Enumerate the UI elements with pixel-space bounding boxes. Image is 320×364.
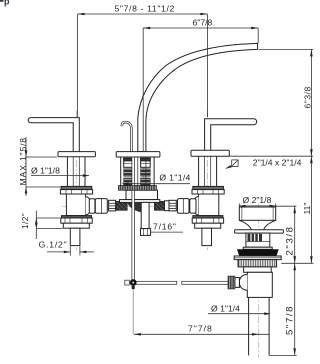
- deck line right: [230, 155, 314, 157]
- 1/2 dim left: [35, 211, 37, 240]
- square symbol leader: [232, 160, 238, 167]
- MAX 1"5/8 dim: [25, 137, 27, 196]
- centerline left valve: [75, 110, 77, 250]
- left valve lower ring 1: [62, 216, 92, 218]
- dia 1"1/4 bottom arrow: [264, 312, 271, 315]
- tee body: [126, 190, 158, 199]
- right valve flange: [191, 150, 229, 156]
- G1/2 arrows: [64, 251, 71, 254]
- right valve lower ring 2: [192, 218, 223, 223]
- svg-text:2"1/4 x 2"1/4: 2"1/4 x 2"1/4: [253, 158, 302, 168]
- right outlet collar: [190, 199, 196, 213]
- right hose big nut: [178, 199, 190, 214]
- 5"7/8 arrows: [293, 263, 296, 270]
- left hose big nut: [95, 199, 107, 214]
- svg-text:1/2": 1/2": [21, 213, 30, 229]
- 7"7/8 arrows: [134, 333, 141, 336]
- left valve body: [66, 194, 85, 216]
- right valve outlet boss: [193, 197, 198, 216]
- tee down pipe: [141, 202, 149, 228]
- svg-text:5"7/8: 5"7/8: [284, 305, 295, 335]
- left valve outlet boss: [86, 197, 91, 216]
- left braided hose: [116, 201, 127, 210]
- dim 5"7/8 vertical: [294, 263, 296, 355]
- dim 11" vertical: [310, 156, 312, 263]
- svg-text:MAX.1"5/8: MAX.1"5/8: [18, 137, 28, 185]
- drain upper body: [246, 233, 270, 247]
- spout water tube lines: [137, 157, 139, 186]
- pivot boss: [239, 274, 247, 290]
- tee fillet: [127, 202, 141, 212]
- left hose striped connector: [109, 200, 116, 211]
- svg-text:Ø 1"1/4: Ø 1"1/4: [159, 172, 190, 182]
- 1/2 arrows: [35, 218, 37, 224]
- ball joint: [130, 280, 136, 286]
- svg-text:7"7/8: 7"7/8: [188, 323, 213, 333]
- tee pipe hex cap: [141, 229, 151, 236]
- right valve body: [198, 194, 218, 216]
- drain lower ring: [244, 267, 272, 272]
- knurl nut over rod: [119, 186, 157, 191]
- dim dia 2"1/8: [239, 205, 275, 207]
- left lever handle: [28, 118, 79, 152]
- dim1 arrows: [78, 13, 85, 16]
- spout mounting knurl nut: [119, 186, 157, 191]
- svg-text:G.1/2": G.1/2": [39, 240, 68, 250]
- left valve lower ring 2: [61, 218, 92, 223]
- drain pivot housing: [247, 272, 272, 297]
- pivot collar: [235, 278, 240, 288]
- logo fragment top-left: [0, 0, 10, 7]
- 6"3/8 arrows: [310, 49, 313, 56]
- dia 1"1/8 leader: [31, 175, 89, 177]
- left valve shank: [66, 157, 68, 187]
- drain overflow slots: [248, 234, 263, 241]
- right hose collar: [165, 201, 170, 211]
- right valve washer: [193, 186, 224, 189]
- ext spout tip: [259, 48, 313, 50]
- svg-text:p: p: [4, 0, 10, 7]
- spout curved tube: [138, 43, 258, 151]
- dim 2"3/8 vertical: [294, 206, 296, 263]
- spout shank thread blocks row B: [124, 169, 134, 176]
- rod centerline continuation: [132, 290, 134, 335]
- drain step ring: [243, 247, 272, 249]
- dim 6"3/8 vertical: [310, 49, 312, 156]
- left valve washer: [61, 186, 92, 189]
- dia 1"1/4 bottom leader: [208, 313, 269, 315]
- left outlet collar: [89, 199, 95, 214]
- ext drain top: [276, 205, 297, 207]
- svg-text:Ø 1"1/8: Ø 1"1/8: [31, 165, 60, 175]
- right valve lower ring 3: [195, 223, 221, 228]
- dia 2"1/8 arrows: [239, 205, 245, 207]
- right valve locknut: [192, 190, 224, 194]
- svg-text:5"7/8 - 11"1/2: 5"7/8 - 11"1/2: [115, 4, 175, 14]
- dim 6"7/8: [143, 27, 258, 29]
- spout shank thread blocks row C: [124, 178, 134, 185]
- drain locknut: [238, 260, 277, 267]
- horizontal pivot rod seg1: [136, 281, 177, 284]
- right valve G1/2 tail: [202, 228, 212, 245]
- spout shank upper boxes: [124, 158, 134, 167]
- spout flange: [116, 152, 160, 157]
- svg-text:Ø 1"1/4: Ø 1"1/4: [211, 303, 240, 313]
- dim 7"7/8 bottom: [134, 333, 269, 335]
- dia 1"1/4 center leader: [123, 183, 191, 185]
- centerline hose axis: [62, 205, 222, 207]
- dim spread 5"7/8-11"1/2: [78, 13, 208, 15]
- left valve flange: [58, 152, 95, 157]
- ext drain lower line: [281, 262, 313, 264]
- square leader arrow: [225, 165, 231, 169]
- right braided hose: [154, 201, 164, 210]
- centerline drain: [258, 204, 260, 357]
- 7/16 leader: [151, 231, 183, 233]
- MAX arrows: [25, 151, 28, 158]
- 2"3/8 arrows: [293, 206, 296, 213]
- right lever handle: [205, 119, 257, 151]
- left valve locknut: [60, 190, 92, 194]
- G 1/2 dim: [47, 251, 70, 253]
- drain flange: [235, 230, 284, 233]
- drain neck taper: [239, 220, 251, 229]
- right valve lower ring 1: [193, 216, 223, 218]
- drain tailpipe: [248, 297, 250, 355]
- svg-text:11": 11": [302, 203, 312, 215]
- 11" arrows: [310, 156, 313, 163]
- horizontal pivot rod seg2: [182, 281, 228, 284]
- spout shank rails: [120, 157, 122, 186]
- left valve G1/2 tail: [70, 228, 80, 245]
- tee lip: [120, 200, 160, 203]
- rod clevis: [125, 280, 130, 285]
- drain washer band: [234, 256, 281, 260]
- ball lower nub: [132, 286, 135, 290]
- lift rod knob: [122, 122, 131, 152]
- svg-text:2"3/8: 2"3/8: [284, 225, 295, 255]
- ext tail bottom: [269, 354, 297, 356]
- dia 1"1/4 arrow: [122, 182, 129, 185]
- right hose striped connector: [169, 200, 176, 211]
- right valve shank: [198, 156, 200, 186]
- svg-text:6"7/8: 6"7/8: [193, 17, 213, 27]
- svg-text:Ø 2"1/8: Ø 2"1/8: [243, 195, 272, 205]
- pop-up rod through tee: [132, 157, 135, 280]
- drain rubber gasket: [237, 249, 279, 256]
- svg-text:7/16": 7/16": [153, 222, 177, 232]
- drain cap: [239, 207, 275, 220]
- centerline spout shank: [142, 158, 144, 200]
- dim2 arrows: [143, 27, 150, 30]
- dia 1"1/8 arrow: [83, 174, 90, 177]
- left valve lower ring 3: [63, 223, 89, 228]
- pivot knurled nut: [228, 276, 235, 289]
- svg-text:6"3/8: 6"3/8: [303, 86, 313, 108]
- centerline right valve: [207, 110, 209, 250]
